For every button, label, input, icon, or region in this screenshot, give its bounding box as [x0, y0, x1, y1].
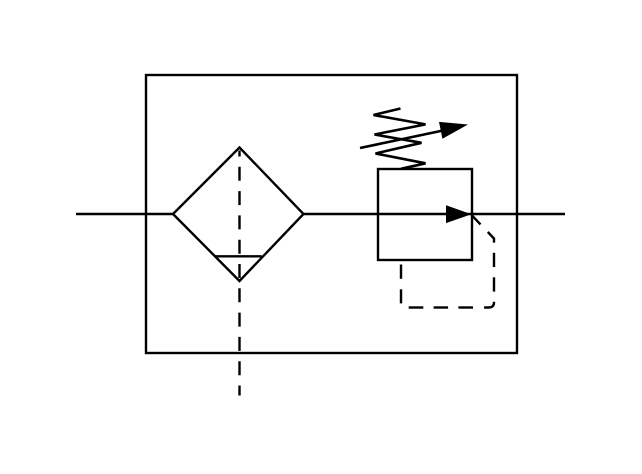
pilot dash 6: [458, 306, 473, 308]
enclosure box (unit boundary): [146, 75, 517, 353]
adjustment arrow shaft: [360, 131, 443, 149]
pilot dash 8: [409, 306, 424, 308]
regulator spring (zigzag): [374, 109, 426, 169]
main flow line (inlet to outlet): [76, 213, 565, 215]
pilot dash 4: [493, 277, 495, 291]
adjustment arrowhead: [439, 122, 468, 139]
pilot feedback dashed line: dash 1 from arrow tip: [472, 216, 481, 225]
regulator flow arrowhead: [446, 205, 471, 223]
filter F1 diamond body: [173, 148, 304, 282]
pilot dash 7: [434, 306, 449, 308]
filter drain dashed centerline: [238, 151, 240, 396]
pilot dash 10 up to regulator bottom: [400, 265, 402, 279]
pilot dash 2 bending into right vertical: [488, 232, 494, 243]
pilot dash 5 around bottom-right corner: [484, 302, 494, 308]
pilot dash 9 on left vertical: [400, 289, 402, 303]
pilot dash 3: [493, 253, 495, 267]
water separator chord line: [215, 255, 261, 257]
regulator body R1: [378, 169, 472, 260]
